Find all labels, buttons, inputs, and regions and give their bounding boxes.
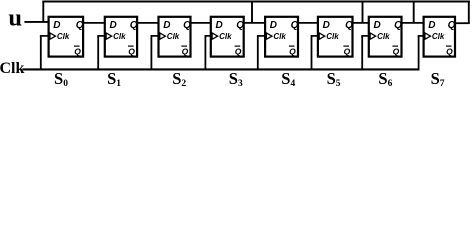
clock triangle of FF5 <box>266 33 272 39</box>
wire: Q of FF3 to D of FF4 <box>190 22 211 24</box>
node label S3 <box>229 69 243 89</box>
node label S7 <box>431 69 445 89</box>
wire: rail drop to node FF6/FF7 <box>362 2 364 23</box>
svg-text:2: 2 <box>181 79 186 89</box>
svg-text:S: S <box>54 69 63 88</box>
D flip-flop FF3 (state S2) <box>159 17 192 57</box>
D flip-flop FF2 (state S1) <box>105 17 138 57</box>
svg-text:Q: Q <box>235 46 242 56</box>
clock triangle of FF3 <box>160 33 166 39</box>
clock triangle of FF6 <box>319 33 325 39</box>
wire: Q of FF5 to D of FF6 <box>298 22 319 24</box>
D flip-flop FF4 (state S3) <box>211 17 245 57</box>
wire: Q of FF4 to D of FF5 <box>243 22 265 24</box>
svg-text:D: D <box>270 20 277 31</box>
wire: u to D of FF1 <box>24 21 50 23</box>
node label S2 <box>172 69 186 89</box>
svg-text:Q: Q <box>291 20 299 31</box>
svg-text:Clk: Clk <box>219 32 232 41</box>
svg-text:1: 1 <box>116 79 121 89</box>
svg-text:D: D <box>53 20 60 31</box>
svg-text:Q: Q <box>448 20 456 31</box>
wire: Q of FF1 to D of FF2 <box>83 22 106 24</box>
svg-text:D: D <box>323 20 330 31</box>
svg-text:u: u <box>8 5 22 32</box>
wire: Q of FF2 to D of FF3 <box>137 22 159 24</box>
svg-text:5: 5 <box>336 79 341 89</box>
clock triangle of FF8 <box>425 33 431 39</box>
wire: clock riser and stub to FF5 <box>257 36 266 70</box>
wire: rail drop to node FF4/FF5 <box>251 2 253 23</box>
wire: clock riser and stub to FF6 <box>311 36 319 70</box>
node label S0 <box>54 69 68 89</box>
svg-text:Clk: Clk <box>167 32 180 41</box>
svg-text:S: S <box>327 69 336 88</box>
svg-text:Clk: Clk <box>326 32 339 41</box>
wire: Q of FF7 to D of FF8 <box>401 22 424 24</box>
svg-text:Q: Q <box>446 46 453 56</box>
wire: clock riser and stub to FF2 <box>97 36 105 70</box>
svg-text:4: 4 <box>291 79 296 89</box>
svg-text:Clk: Clk <box>432 32 445 41</box>
clock triangle of FF1 <box>50 33 56 39</box>
svg-text:Clk: Clk <box>0 60 25 77</box>
svg-text:7: 7 <box>440 79 445 89</box>
svg-text:S: S <box>281 69 290 88</box>
wire: rail drop to u node <box>42 2 44 23</box>
svg-text:Clk: Clk <box>113 32 126 41</box>
svg-text:6: 6 <box>388 79 393 89</box>
wire: rail drop to node FF7/FF8 <box>413 2 415 23</box>
D flip-flop FF1 (state S0) <box>49 17 84 57</box>
svg-text:S: S <box>172 69 181 88</box>
D flip-flop FF7 (state S6) <box>369 17 402 57</box>
svg-text:Q: Q <box>394 20 402 31</box>
D flip-flop FF6 (state S5) <box>318 17 353 57</box>
svg-text:Q: Q <box>344 46 351 56</box>
svg-text:Q: Q <box>236 20 244 31</box>
svg-text:D: D <box>428 20 435 31</box>
wire: clock riser and stub to FF1 <box>40 36 50 70</box>
wire: clock rail <box>22 68 419 70</box>
wire: top feedback rail <box>42 0 470 2</box>
svg-text:0: 0 <box>63 79 68 89</box>
wire: Q of FF6 to D of FF7 <box>352 22 369 24</box>
wire: FF8 Q up to rail <box>468 2 470 24</box>
svg-text:Q: Q <box>393 46 400 56</box>
svg-text:S: S <box>229 69 238 88</box>
svg-text:S: S <box>107 69 116 88</box>
svg-text:S: S <box>378 69 387 88</box>
svg-text:D: D <box>216 20 223 31</box>
svg-text:Clk: Clk <box>377 32 390 41</box>
wire: FF8 Q output <box>455 22 470 24</box>
wire: clock riser and stub to FF8 <box>418 36 425 70</box>
clock triangle of FF2 <box>106 33 112 39</box>
svg-text:Clk: Clk <box>57 32 70 41</box>
svg-text:S: S <box>431 69 440 88</box>
svg-text:Q: Q <box>289 46 296 56</box>
svg-text:Q: Q <box>345 20 353 31</box>
svg-text:Q: Q <box>183 20 191 31</box>
wire: clock riser and stub to FF3 <box>151 36 160 70</box>
clock triangle of FF4 <box>212 33 218 39</box>
node label S1 <box>107 69 121 89</box>
node label S5 <box>327 69 341 89</box>
svg-text:3: 3 <box>238 79 243 89</box>
wire: clock riser and stub to FF4 <box>205 36 212 70</box>
svg-text:Q: Q <box>128 46 135 56</box>
svg-text:Q: Q <box>76 20 84 31</box>
svg-text:Clk: Clk <box>273 32 286 41</box>
svg-text:Q: Q <box>182 46 189 56</box>
svg-text:Q: Q <box>74 46 81 56</box>
node label S6 <box>378 69 392 89</box>
clock triangle of FF7 <box>370 33 376 39</box>
svg-text:D: D <box>374 20 381 31</box>
D flip-flop FF8 (state S7) <box>424 17 456 57</box>
D flip-flop FF5 (state S4) <box>265 17 299 57</box>
node label S4 <box>281 69 295 89</box>
svg-text:Q: Q <box>130 20 138 31</box>
svg-text:D: D <box>163 20 170 31</box>
wire: clock riser and stub to FF7 <box>361 36 369 70</box>
svg-text:D: D <box>110 20 117 31</box>
